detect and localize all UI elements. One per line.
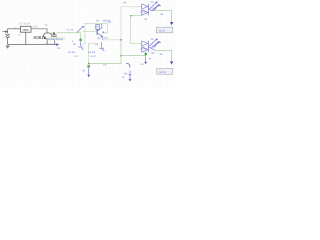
svg-text:POWER LED: POWER LED [49,38,64,41]
svg-text:33: 33 [160,13,163,16]
svg-text:1.4: 1.4 [74,55,78,58]
svg-text:A0615: A0615 [33,35,46,40]
svg-text:0V: 0V [141,63,144,66]
svg-text:33: 33 [144,18,147,21]
svg-text:U1 78L05: U1 78L05 [19,23,30,26]
svg-text:B2: B2 [95,43,99,46]
svg-text:OUT: OUT [33,25,39,28]
svg-text:+5v: +5v [44,24,49,27]
svg-text:81.4%: 81.4% [68,51,76,54]
svg-text:0.0: 0.0 [57,47,61,50]
svg-text:R1: R1 [96,19,100,22]
svg-text:0V: 0V [82,69,85,72]
svg-text:R2: R2 [123,1,127,4]
svg-text:C2 100n: C2 100n [44,43,54,46]
svg-text:D1: D1 [151,1,155,4]
svg-text:81.4%: 81.4% [88,51,96,54]
svg-text:B1: B1 [73,43,77,46]
svg-text:AC-02: AC-02 [159,71,166,74]
svg-text:2V: 2V [108,21,111,24]
svg-text:Q3: Q3 [151,51,155,54]
svg-text:+5 .2V: +5 .2V [66,28,73,31]
svg-text:C1: C1 [18,33,22,36]
svg-text:D2: D2 [151,38,155,41]
svg-text:47k: 47k [95,25,100,28]
svg-text:R4: R4 [124,73,128,76]
svg-text:AC-01: AC-01 [159,30,166,33]
svg-text:7805: 7805 [22,28,29,32]
svg-text:33: 33 [160,53,163,56]
svg-text:0.0: 0.0 [103,64,107,67]
svg-text:1k: 1k [149,57,152,60]
svg-text:8.1V: 8.1V [91,55,96,58]
svg-text:LEDA: LEDA [140,11,147,14]
svg-text:1k: 1k [122,76,125,79]
svg-text:Q1: Q1 [97,37,101,40]
svg-text:LEDA: LEDA [140,48,147,51]
svg-text:1k2: 1k2 [104,37,109,40]
